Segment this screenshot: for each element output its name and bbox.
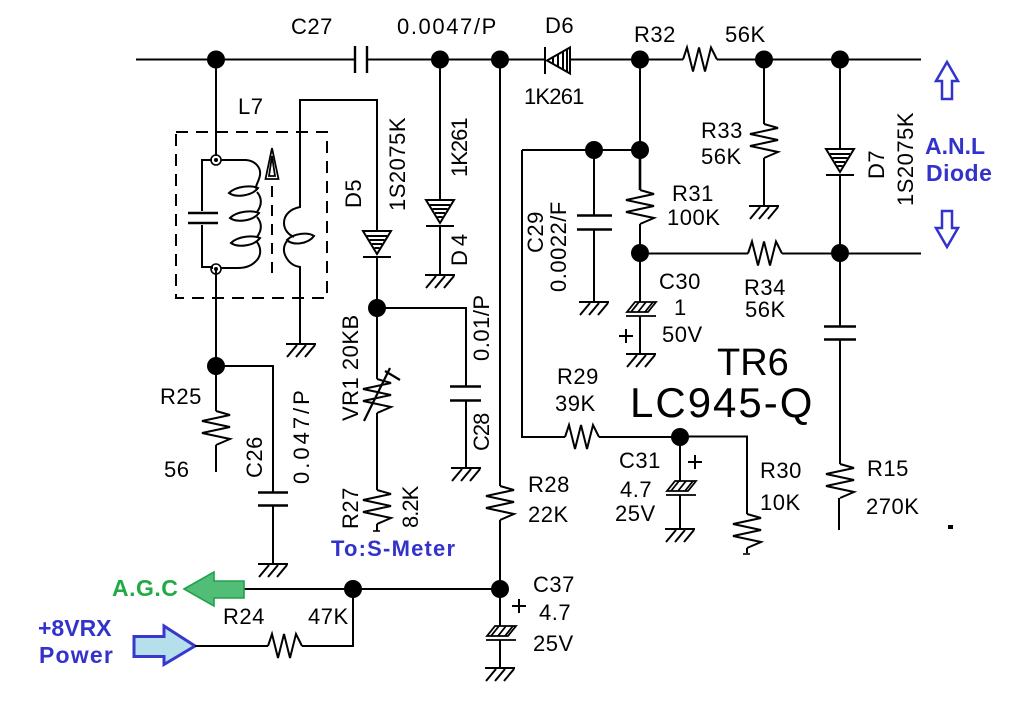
wire from top bus down to D4 <box>439 60 441 201</box>
resistor R28 <box>486 486 514 520</box>
node top bus / R28 line <box>491 51 509 69</box>
wire top bus left segment <box>136 59 355 61</box>
node D5 / VR1 / C28 <box>368 299 386 317</box>
resistor R27 <box>363 490 391 524</box>
resistor R30 <box>733 514 761 548</box>
capacitor C31 plus sign <box>688 455 702 469</box>
resistor R34 <box>748 242 782 266</box>
svg-text:10K: 10K <box>760 490 801 515</box>
svg-text:R29: R29 <box>557 364 599 389</box>
wire top bus between D6 and R32 <box>570 59 683 61</box>
wire secondary top to D5 <box>300 100 377 231</box>
transformer L7 shield dashed box <box>176 132 327 298</box>
wire R30 bottom stub <box>746 548 748 553</box>
node R31 bottom / R34 / C30 <box>631 244 649 262</box>
ground (C26) <box>258 564 288 577</box>
svg-text:R24: R24 <box>223 604 265 629</box>
arrow AGC (green, pointing left) <box>184 572 244 606</box>
svg-text:D5: D5 <box>341 179 366 208</box>
svg-text:To:S-Meter: To:S-Meter <box>331 536 456 561</box>
wire from top bus down to L7 primary <box>215 60 217 157</box>
wire R15 bottom stub <box>838 498 840 530</box>
svg-text:0.0047/P: 0.0047/P <box>397 14 498 39</box>
svg-text:100K: 100K <box>667 205 720 230</box>
capacitor below ANL node <box>839 253 841 326</box>
svg-text:R15: R15 <box>867 456 909 481</box>
wire C26 to ground <box>272 505 274 563</box>
capacitor C29 <box>593 150 595 215</box>
svg-text:R31: R31 <box>672 181 714 206</box>
svg-text:1S2075K: 1S2075K <box>893 112 918 206</box>
svg-text:C31: C31 <box>619 448 661 473</box>
svg-text:C37: C37 <box>533 572 575 597</box>
svg-text:1S2075K: 1S2075K <box>385 117 410 211</box>
svg-text:56K: 56K <box>745 297 786 322</box>
svg-text:50V: 50V <box>662 322 703 347</box>
svg-text:L7: L7 <box>238 94 263 119</box>
svg-text:R33: R33 <box>701 118 743 143</box>
node C29 <box>585 141 603 159</box>
wire node to C28 <box>377 308 466 386</box>
ground (L7 secondary) <box>286 344 316 357</box>
node top bus / R31 line <box>631 51 649 69</box>
wire capacitor to R15 <box>839 339 841 464</box>
svg-text:A.G.C: A.G.C <box>112 575 178 601</box>
svg-text:4.7: 4.7 <box>620 477 652 502</box>
svg-text:R25: R25 <box>160 384 202 409</box>
svg-text:R27: R27 <box>338 487 363 529</box>
diode D7 <box>826 149 854 175</box>
wire R33 to ground <box>763 158 765 205</box>
wire second bus right of R34 <box>782 253 921 255</box>
node ANL / D7 / C15 <box>831 244 849 262</box>
svg-text:270K: 270K <box>866 494 919 519</box>
variable resistor VR1 <box>376 308 378 379</box>
svg-text:C30: C30 <box>659 269 701 294</box>
node R31 top <box>631 141 649 159</box>
ground (C28) <box>451 468 481 481</box>
svg-text:Power: Power <box>39 642 114 668</box>
svg-text:0.047/P: 0.047/P <box>289 387 314 484</box>
resistor R25 <box>215 366 217 411</box>
node AGC / C37 / R28 <box>491 580 509 598</box>
wire R25 bottom stub <box>215 445 217 472</box>
node top bus / D4 <box>431 51 449 69</box>
svg-text:56: 56 <box>164 457 189 482</box>
svg-text:56K: 56K <box>701 144 742 169</box>
svg-text:22K: 22K <box>528 502 569 527</box>
wire VR1 to R27 <box>376 413 378 490</box>
arrow ANL up (blue outline) <box>936 62 958 99</box>
inductor L7 secondary winding <box>284 134 314 298</box>
node top bus / L7 <box>207 51 225 69</box>
svg-text:1K261: 1K261 <box>447 118 472 177</box>
svg-text:8.2K: 8.2K <box>398 485 423 528</box>
ground (R33) <box>749 206 779 219</box>
svg-text:4.7: 4.7 <box>539 600 571 625</box>
capacitor C31 <box>679 437 681 481</box>
resistor R32 <box>683 48 717 72</box>
svg-text:C28: C28 <box>469 413 494 451</box>
wire secondary bottom to ground <box>299 296 301 344</box>
ground (D4) <box>425 275 455 288</box>
wire from top bus down to D7 <box>839 60 841 150</box>
svg-text:25V: 25V <box>615 501 656 526</box>
stray dot <box>948 525 953 529</box>
svg-text:D6: D6 <box>545 13 574 38</box>
wire +8VRX to R24 <box>195 645 268 647</box>
svg-text:R30: R30 <box>760 458 802 483</box>
wire D5 cathode to node <box>376 257 378 308</box>
svg-text:R28: R28 <box>528 472 570 497</box>
diode D5 <box>363 231 391 257</box>
svg-text:25V: 25V <box>533 631 574 656</box>
diode D6 <box>545 47 570 74</box>
svg-text:C26: C26 <box>242 436 267 478</box>
ground (C29) <box>579 302 609 315</box>
svg-text:C29: C29 <box>523 211 548 253</box>
inductor L7 primary winding <box>221 160 261 268</box>
resistor R15 <box>826 464 854 498</box>
svg-text:0.01/P: 0.01/P <box>469 294 494 361</box>
svg-text:D7: D7 <box>864 150 889 179</box>
wire second bus (ANL) <box>640 253 748 255</box>
node R29 / C31 / R30 <box>671 428 689 446</box>
wire from top bus down to C29 node <box>639 60 641 151</box>
wire L7 bottom to node <box>215 269 217 366</box>
ground (C30) <box>626 354 656 367</box>
ground (C31) <box>665 529 695 542</box>
svg-text:C27: C27 <box>291 14 333 39</box>
svg-text:A.N.L: A.N.L <box>925 133 985 159</box>
resistor R24 <box>268 634 302 658</box>
capacitor C37 plus sign <box>512 599 526 613</box>
capacitor inside L7 (tuning) <box>188 160 218 269</box>
wire D7 cathode to ANL node <box>839 175 841 253</box>
wire R27 bottom stub <box>376 524 378 531</box>
node L7 bottom / R25 / C26 <box>207 357 225 375</box>
svg-text:R32: R32 <box>634 22 676 47</box>
wire D4 cathode to ground <box>439 226 441 274</box>
svg-text:1K261: 1K261 <box>524 84 584 109</box>
tuning slug arrow of L7 <box>266 148 279 179</box>
wire from top bus down to R33 <box>763 60 765 125</box>
wire C29 branch left vertical <box>522 150 565 437</box>
capacitor C26 <box>258 493 288 506</box>
arrow +8VRX (light blue, pointing right) <box>134 626 195 665</box>
wire R31 to node <box>639 224 641 253</box>
node top bus / R33 <box>755 51 773 69</box>
capacitor C28 <box>450 387 481 401</box>
wire C28 to ground <box>465 400 467 468</box>
svg-text:1: 1 <box>674 295 687 320</box>
svg-text:D4: D4 <box>447 230 472 266</box>
wire AGC bus <box>243 588 500 590</box>
L7 core dashed axis <box>271 186 273 278</box>
wire node to C26 <box>216 366 273 492</box>
resistor R33 <box>750 124 778 158</box>
node top bus / D7 <box>831 51 849 69</box>
svg-text:47K: 47K <box>308 604 349 629</box>
wire R24 to AGC node <box>302 589 353 646</box>
arrow ANL down (blue outline) <box>936 211 958 247</box>
svg-text:0.0022/F: 0.0022/F <box>546 201 571 292</box>
svg-text:39K: 39K <box>555 391 596 416</box>
wire R29 to node <box>599 436 680 438</box>
capacitor C37 <box>499 589 501 626</box>
wire long line from top bus to R28 <box>499 60 501 487</box>
capacitor C30 <box>639 253 641 302</box>
wire top bus between C27 and D6 <box>367 59 545 61</box>
ground (C37) <box>485 668 515 681</box>
svg-text:TR6: TR6 <box>717 342 789 384</box>
resistor R31 <box>639 150 642 190</box>
transformer L7 primary terminal bottom <box>211 264 221 274</box>
node AGC / R24 <box>344 580 362 598</box>
diode D4 <box>426 200 454 226</box>
svg-text:VR1 20KB: VR1 20KB <box>338 314 363 421</box>
capacitor C27 <box>355 46 367 73</box>
wire node to R30 <box>680 437 747 515</box>
wire C29 branch top <box>522 149 640 151</box>
wire top bus right segment <box>717 59 921 61</box>
capacitor C30 plus sign <box>619 329 633 343</box>
wire R28 to AGC node <box>499 520 501 589</box>
svg-text:56K: 56K <box>725 22 766 47</box>
svg-text:Diode: Diode <box>926 160 992 186</box>
resistor R29 <box>565 425 599 449</box>
svg-text:+8VRX: +8VRX <box>38 615 112 641</box>
svg-text:LC945-Q: LC945-Q <box>630 379 814 426</box>
transformer L7 primary terminal top <box>211 155 221 165</box>
